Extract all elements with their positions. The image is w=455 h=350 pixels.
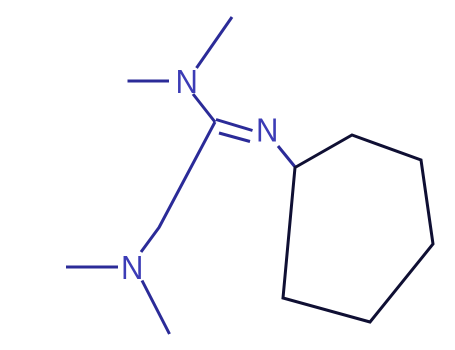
- methyl bond CH3 left from N1: [128, 80, 170, 83]
- svg-text:N: N: [121, 249, 143, 286]
- methyl bond CH3 up-right from N1: [197, 17, 233, 68]
- bond N1 to amidine C: [193, 94, 215, 122]
- svg-text:N: N: [256, 112, 278, 149]
- bond N2 to cyclohexyl C1: [278, 146, 296, 168]
- svg-text:N: N: [176, 63, 198, 100]
- double bond C=N2 main line: [216, 120, 253, 131]
- cyclohexane ring: [283, 135, 433, 322]
- methyl bond CH3 left from N3: [66, 266, 118, 269]
- chain bonds C-CH2-CH2-N3 polyline: [141, 122, 215, 252]
- methyl bond CH3 down-right from N3: [142, 281, 170, 335]
- double bond C=N2 offset line: [219, 133, 250, 142]
